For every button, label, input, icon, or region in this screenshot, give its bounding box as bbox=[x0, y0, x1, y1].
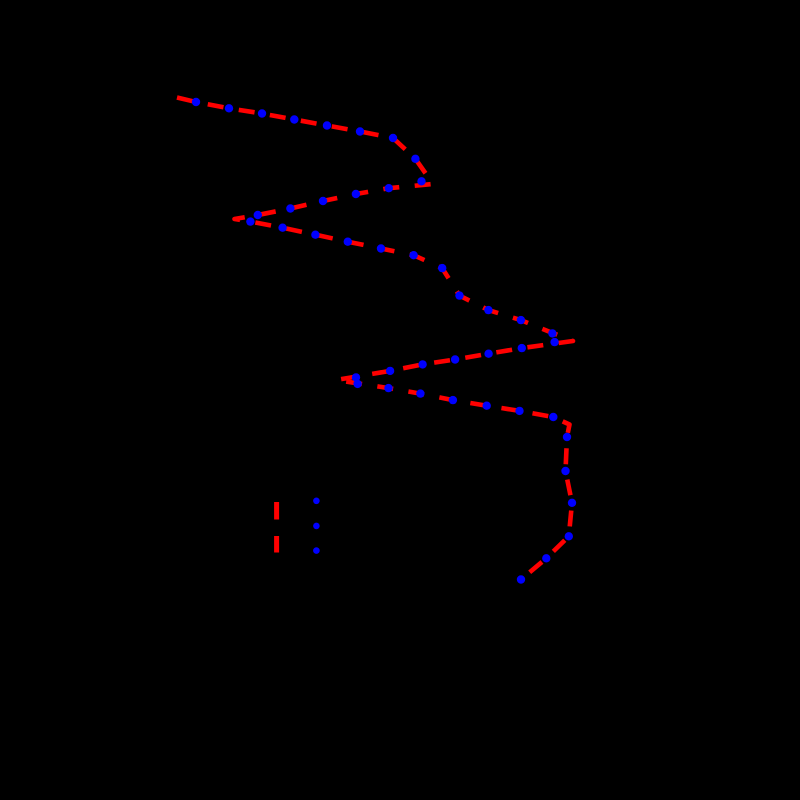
legend point samples (three blue dots) bbox=[313, 498, 320, 554]
data points (blue filled circles) bbox=[192, 98, 576, 584]
legend line sample (vertical red dashed segment) bbox=[274, 502, 279, 553]
profile curve (red dashed polyline) bbox=[177, 98, 573, 580]
